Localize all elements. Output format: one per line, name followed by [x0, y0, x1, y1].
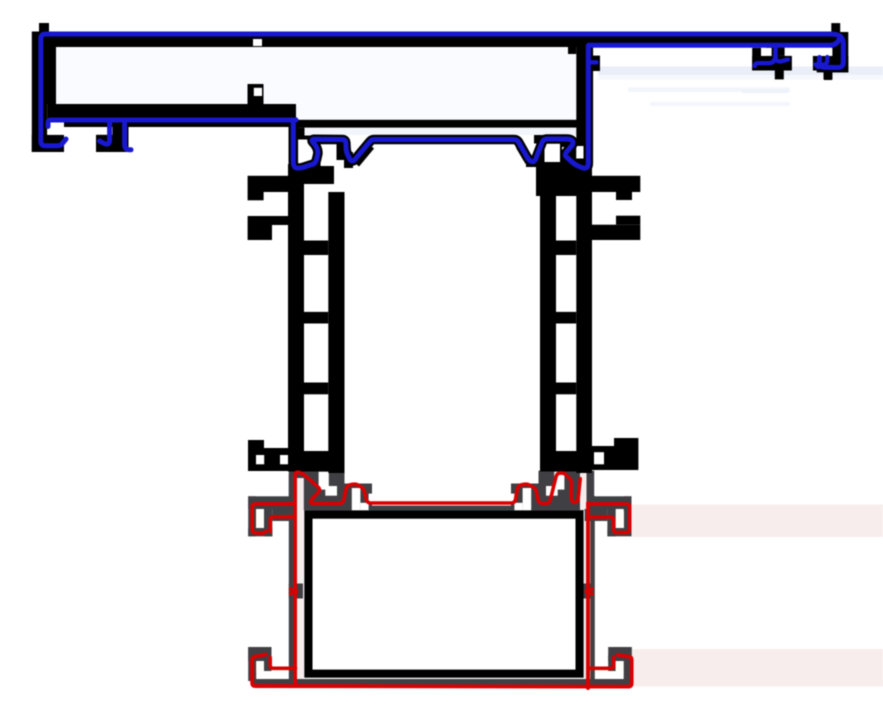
- white hole under left plateau: [321, 144, 337, 167]
- black shade under left rising diagonal: [356, 146, 371, 164]
- sash gray band under right red waves: [539, 471, 595, 511]
- clip B white notch: [814, 48, 833, 56]
- sash gray strip under middle red line: [372, 506, 511, 511]
- right ladder upper tick 1: [592, 176, 640, 192]
- black underlay for glazing channel outline: [293, 46, 588, 168]
- frame right wall step: [568, 47, 576, 54]
- right wall nub red tip: [586, 588, 594, 594]
- clip B block: [813, 56, 833, 71]
- left ladder left bar: [288, 164, 304, 472]
- right ladder right bar merged with frame right wall: [576, 47, 592, 473]
- glazing channel outline blue: [293, 46, 588, 168]
- frame under-bar blue line: [48, 120, 296, 127]
- right ladder top mass: [536, 162, 592, 196]
- frame outline: left foot tip, left wall, top edge, right end hook: [41, 34, 844, 146]
- right end tab: [824, 71, 832, 80]
- sash right wall gray: [590, 496, 595, 687]
- glazing rectangle outer: [304, 510, 583, 677]
- frame top wall: [32, 32, 592, 48]
- left ladder rung 1: [304, 241, 328, 256]
- frame left wall upper: [32, 47, 56, 104]
- right end white notch: [817, 47, 832, 56]
- left ladder upper tick 2: [248, 216, 272, 240]
- right ladder rung 2: [556, 312, 576, 324]
- sash left wall gray: [289, 474, 297, 686]
- frame left foot: [32, 135, 64, 152]
- red right wall line: [586, 503, 590, 688]
- second foot blue stubs: [100, 121, 132, 150]
- right ladder rung 3: [556, 383, 576, 395]
- flange black core: [588, 33, 846, 46]
- left ladder right bar: [328, 192, 344, 473]
- pink band right of sash bottom foot: [632, 649, 883, 687]
- frame top-left tick: [39, 23, 49, 33]
- right ladder bottom block: [540, 451, 592, 472]
- right end vertical block: [832, 32, 849, 72]
- tick right of frame wall: [592, 56, 600, 71]
- clip A blue stem and hooks: [755, 46, 788, 66]
- sash right wall nub: [582, 584, 594, 599]
- left ladder rung 3: [304, 383, 328, 395]
- clip A base: [752, 56, 792, 71]
- clip A left riser: [752, 48, 761, 71]
- white notch above left foot: [47, 123, 64, 135]
- clip A white notch: [761, 48, 772, 56]
- sash top-right hook gray body: [591, 496, 632, 509]
- white hole under right plateau: [545, 143, 561, 164]
- left ladder rung 2: [304, 312, 328, 324]
- frame second foot hook: [96, 135, 129, 152]
- left wall nub red tip: [289, 588, 297, 594]
- white pocket inside zigzag: [562, 147, 570, 158]
- red wavy top with bumps: [295, 472, 580, 686]
- white cutouts in left wave gray: [319, 472, 329, 490]
- frame interior tint: [56, 47, 576, 120]
- right ladder bottom tick: [614, 438, 638, 470]
- clip A tab: [775, 71, 784, 80]
- blue notch in tick right of wall: [588, 60, 597, 64]
- glazing rectangle inner white: [313, 519, 576, 670]
- right ladder upper tick 2: [592, 225, 640, 240]
- clip A stem block: [766, 45, 785, 56]
- top-right tick: [831, 23, 840, 32]
- sash top-right hook red: [588, 504, 630, 533]
- frame bottom-left bar: [47, 104, 296, 127]
- left foot inner red: [270, 658, 295, 669]
- sash top-left hook red: [252, 504, 295, 534]
- faint highlight band top right: [598, 67, 883, 76]
- frame left wall lower: [32, 104, 47, 152]
- sash left wall nub: [289, 584, 303, 599]
- screw channel tick on bottom bar: [248, 84, 264, 104]
- pink gap column right of glass rect: [580, 473, 587, 510]
- sash bottom edge gray band: [252, 679, 632, 687]
- sash bottom edge and feet red: [252, 655, 631, 687]
- white pocket in left channel: [297, 140, 312, 161]
- black shade under right descending diagonal: [520, 146, 530, 162]
- right ladder left bar: [540, 196, 556, 472]
- sash bottom-left foot gray body: [248, 647, 271, 661]
- left ladder upper tick 1: [248, 176, 288, 192]
- white notch in right bar near J-hook: [576, 146, 583, 159]
- faint dash row under flange: [628, 88, 790, 93]
- right glazing channel black chunks: [534, 135, 572, 144]
- white holes in sash hooks: [256, 511, 264, 528]
- clip B tab: [824, 71, 833, 80]
- left ladder bottom block: [288, 451, 345, 472]
- pink gap column left of glass rect: [297, 478, 304, 679]
- sash bottom-right foot gray body: [608, 647, 632, 661]
- right ladder rung 1: [556, 241, 576, 256]
- screw channel dot in top wall: [253, 39, 262, 46]
- white cutouts in right wave gray: [554, 472, 564, 490]
- clip B blue hook: [816, 57, 828, 67]
- left glazing channel black chunks: [296, 128, 305, 140]
- left ladder top mass: [289, 166, 334, 184]
- right end hook bottom band: [817, 56, 849, 73]
- frame inner bottom line (middle span): [296, 120, 577, 128]
- pink band right of sash top hook: [632, 505, 883, 538]
- right foot inner red: [588, 658, 614, 669]
- sash top-left hook gray body: [248, 496, 295, 509]
- sash gray band under left red waves: [289, 471, 345, 511]
- flange bottom blue line: [589, 40, 840, 46]
- left ladder bottom tick: [248, 440, 264, 471]
